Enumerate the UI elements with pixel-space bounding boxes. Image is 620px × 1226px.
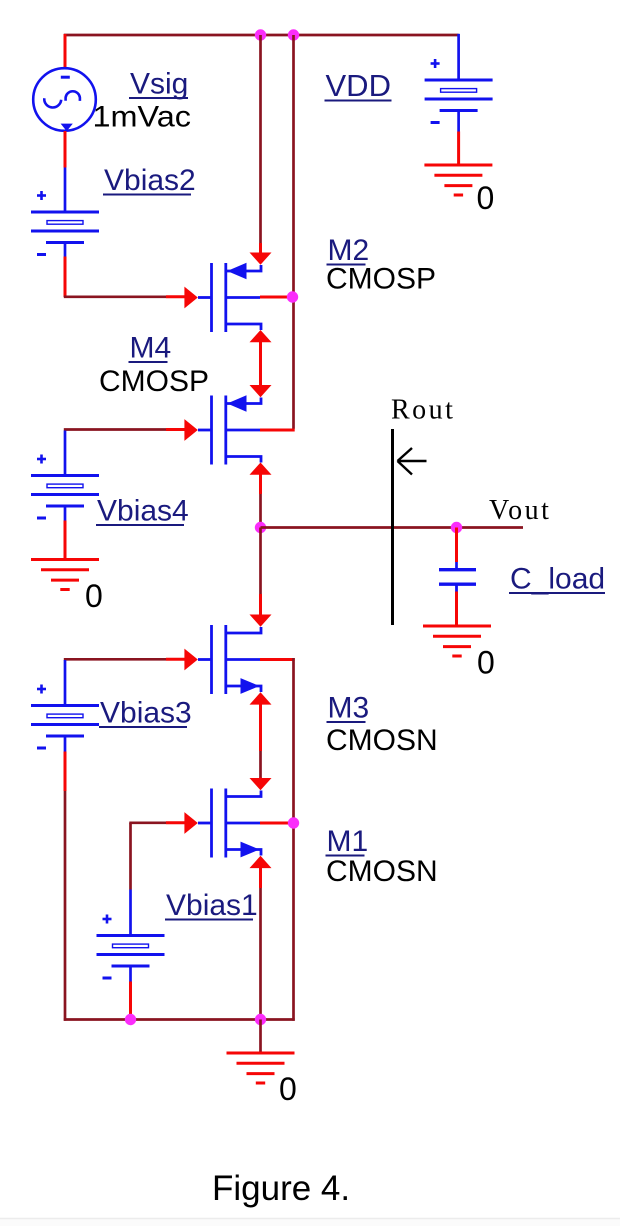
wire Vbias4 bottom lead — [64, 506, 67, 560]
pin arrow M1 gate — [184, 812, 197, 834]
svg-text:Vbias2: Vbias2 — [104, 164, 196, 197]
wire Vbias4 to M4 gate — [64, 428, 185, 431]
pin arrow into M3 top — [250, 615, 272, 627]
ground 0 main — [227, 1053, 295, 1083]
label Vbias3 — [99, 697, 192, 730]
caption Figure 4. — [212, 1169, 350, 1208]
transistor M2 (PMOS symbol) — [198, 263, 261, 332]
battery Vbias1 — [97, 915, 165, 979]
page edge line — [0, 1219, 620, 1226]
label M2 — [327, 234, 370, 267]
label C_load — [509, 563, 605, 596]
wire Vbias4 top lead — [64, 431, 67, 476]
wire C_load bottom lead — [455, 592, 458, 627]
wire M3 middle stub to right bus — [260, 658, 295, 661]
wire M1 source to ground rail — [259, 867, 262, 1020]
label 0 (main ground) — [279, 1071, 297, 1107]
svg-text:0: 0 — [279, 1071, 297, 1107]
pin arrow M3 source (bottom) — [250, 692, 272, 704]
wire rail to ground symbol — [259, 1020, 262, 1054]
capacitor C_load — [439, 570, 476, 592]
transistor M3 (NMOS symbol) — [198, 625, 261, 694]
svg-text:C_load: C_load — [510, 563, 605, 596]
label CMOSP (M2) — [326, 263, 436, 296]
svg-text:Vsig: Vsig — [130, 68, 188, 101]
label M4 — [129, 332, 172, 365]
svg-text:M3: M3 — [328, 692, 370, 725]
svg-text:0: 0 — [85, 578, 103, 614]
wire Vbias3 bottom to rail — [64, 736, 67, 1021]
pin arrow M2 bulk-drain (bottom) — [250, 330, 272, 342]
label Vbias4 — [96, 495, 189, 528]
wire Vbias3 top lead — [64, 660, 67, 706]
label Vsig — [129, 68, 188, 101]
svg-text:CMOSN: CMOSN — [326, 724, 438, 757]
label Vbias1 — [165, 889, 258, 922]
label Rout — [391, 395, 455, 426]
wire Vbias2 bottom lead — [64, 243, 67, 298]
node dot Vbias1 at rail — [125, 1014, 136, 1025]
wire ground rail — [64, 1018, 295, 1021]
transistor M4 (PMOS symbol) — [198, 395, 261, 464]
wire M3 source to M1 drain — [259, 704, 262, 778]
wire Vbias2 to M2 gate — [64, 295, 185, 298]
wire VDD battery to ground — [457, 111, 460, 166]
label 0 (Vbias4 ground) — [85, 578, 103, 614]
pin arrow M4 source (bottom) — [250, 463, 272, 475]
pin arrow M2 gate — [184, 287, 197, 309]
svg-text:CMOSP: CMOSP — [99, 365, 209, 398]
node junction dot M2 drain at bus — [287, 291, 298, 302]
label CMOSP (M4) — [99, 365, 209, 398]
wire Vout horizontal — [261, 526, 524, 529]
wire drop rail to M2/M4 drain bus — [292, 35, 295, 429]
svg-text:CMOSN: CMOSN — [326, 855, 438, 888]
wire Vbias1 bottom to rail — [129, 966, 132, 1020]
label M3 — [327, 692, 370, 725]
pin arrow M2 source (top) — [250, 253, 272, 265]
label M1 — [326, 825, 369, 858]
svg-text:Vout: Vout — [489, 495, 551, 526]
wire rail corner to VDD battery — [457, 34, 460, 80]
svg-text:VDD: VDD — [326, 68, 391, 103]
probe line Rout — [391, 429, 394, 625]
voltage source Vsig (VAC symbol) — [33, 68, 96, 131]
wire M1 middle stub to bus — [260, 822, 294, 825]
node Vout dot at C_load — [451, 522, 462, 533]
wire Vout node to M3 drain — [259, 528, 262, 615]
node junction dot M1 drain at bus — [288, 817, 299, 828]
battery VDD — [425, 59, 493, 123]
ground 0 below Vbias4 — [31, 560, 99, 590]
svg-text:1mVac: 1mVac — [93, 101, 192, 134]
pin arrow M3 gate — [184, 649, 197, 671]
node junction dot on rail at x293.5 — [288, 29, 299, 40]
wire M2 source to M4 drain — [259, 341, 262, 388]
wire Vsig top stub — [64, 34, 67, 69]
pin arrow into M4 top — [250, 385, 272, 397]
wire drop rail to M2 source — [259, 35, 262, 254]
wire M1 gate to Vbias1 — [129, 823, 185, 936]
wire Vbias3 to M3 gate — [64, 658, 185, 661]
ground 0 below VDD — [424, 165, 492, 195]
pin arrow M1 source (bottom) — [250, 856, 272, 868]
value 1mVac — [93, 101, 192, 134]
wire VDD top rail — [64, 34, 459, 37]
label Vbias2 — [103, 164, 196, 197]
svg-text:Vbias3: Vbias3 — [100, 697, 192, 730]
label CMOSN (M3) — [326, 724, 438, 757]
pin arrow M4 gate — [184, 419, 197, 441]
svg-text:0: 0 — [477, 180, 495, 216]
label VDD — [325, 68, 392, 103]
ground 0 below C_load — [423, 626, 491, 656]
svg-text:M1: M1 — [327, 825, 369, 858]
svg-text:Vbias4: Vbias4 — [97, 495, 189, 528]
label 0 (VDD ground) — [477, 180, 495, 216]
pin arrow into M1 top — [250, 778, 272, 790]
node dot ground tap at rail — [255, 1014, 266, 1025]
node Vout junction dot left — [255, 522, 266, 533]
battery Vbias2 — [31, 191, 99, 255]
wire M4 middle stub to bus corner — [260, 429, 295, 432]
label 0 (C_load ground) — [477, 645, 495, 681]
probe arrow Rout — [398, 448, 427, 475]
svg-text:Vbias1: Vbias1 — [166, 889, 258, 922]
wire M4 source to Vout node — [259, 475, 262, 528]
svg-text:0: 0 — [477, 645, 495, 681]
label Vout — [489, 495, 551, 526]
wire M2 middle stub to bus — [260, 296, 294, 299]
node junction dot on rail at x261 — [255, 29, 266, 40]
svg-text:M4: M4 — [130, 332, 172, 365]
svg-text:Rout: Rout — [391, 395, 455, 426]
svg-text:Figure 4.: Figure 4. — [212, 1169, 350, 1208]
wire Vsig bottom to Vbias2 — [64, 131, 67, 212]
svg-text:CMOSP: CMOSP — [326, 263, 436, 296]
transistor M1 (NMOS symbol) — [198, 789, 261, 858]
battery Vbias4 — [31, 455, 99, 519]
label CMOSN (M1) — [326, 855, 438, 888]
battery Vbias3 — [31, 685, 99, 749]
wire M3 drain bus down — [292, 658, 295, 1021]
wire Vout to C_load — [455, 528, 458, 569]
